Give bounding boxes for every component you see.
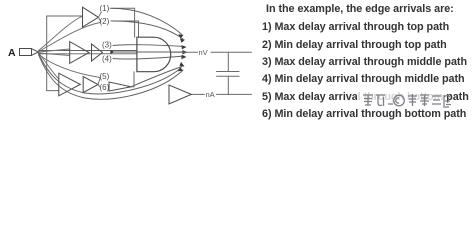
svg-text:A: A <box>8 47 16 59</box>
svg-text:(3): (3) <box>102 41 112 50</box>
svg-text:nV: nV <box>199 48 208 57</box>
svg-text:(6): (6) <box>100 83 110 92</box>
svg-text:(2): (2) <box>100 17 110 26</box>
svg-text:nA: nA <box>206 90 215 99</box>
svg-text:(5): (5) <box>100 72 110 81</box>
svg-text:(4): (4) <box>102 55 112 64</box>
svg-text:(1): (1) <box>100 4 110 13</box>
